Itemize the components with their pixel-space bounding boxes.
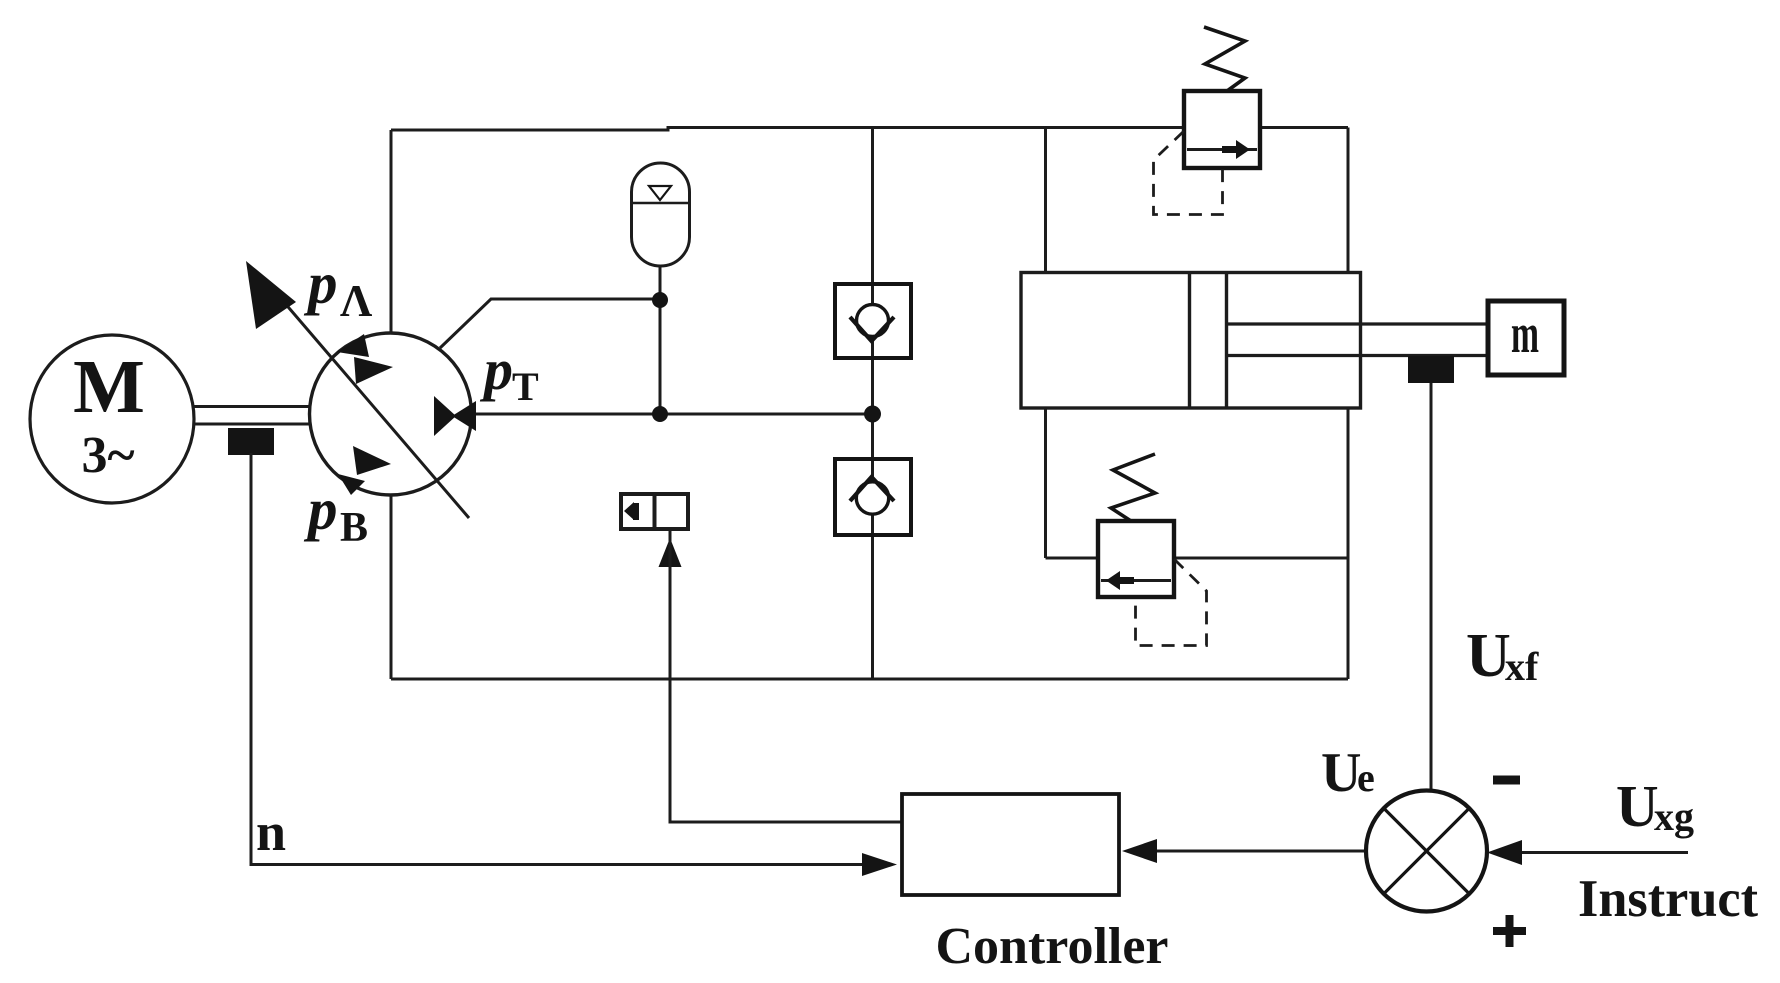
check valve V2 seat	[850, 477, 894, 501]
pump displacement arrow shaft	[283, 301, 469, 518]
svg-text:Instruct: Instruct	[1578, 870, 1758, 928]
node junction dot B	[652, 406, 668, 422]
controller box	[902, 794, 1119, 895]
check valve V2 ball	[856, 482, 888, 514]
svg-text:n: n	[256, 802, 286, 862]
mass block box	[1488, 301, 1564, 375]
arrowhead error into controller	[1122, 839, 1157, 863]
svg-text:M: M	[73, 345, 145, 429]
solenoid valve arrow	[624, 502, 634, 520]
relief valve RV1 flow line	[1187, 148, 1257, 151]
wire Uxf	[1430, 383, 1433, 792]
svg-text:B: B	[340, 505, 368, 551]
cylinder body	[1021, 273, 1361, 409]
solenoid valve body	[621, 494, 688, 529]
relief valve RV2 arrow	[1106, 571, 1120, 590]
label minus	[1493, 776, 1520, 785]
summing junction X	[1384, 808, 1470, 894]
speed sensor block	[228, 428, 274, 455]
check valve V1 ball	[857, 305, 889, 337]
accumulator shell	[632, 163, 690, 266]
wire error signal to controller	[1150, 850, 1366, 853]
svg-text:Λ: Λ	[340, 276, 372, 326]
wire accumulator drop	[659, 266, 662, 414]
svg-text:p: p	[303, 476, 338, 542]
relief valve RV1 box	[1184, 91, 1260, 168]
wire valve to controller	[670, 529, 902, 822]
check valve V1 seat	[850, 317, 894, 341]
relief valve RV1 arrow	[1236, 140, 1250, 159]
svg-text:p: p	[303, 250, 338, 316]
solenoid valve divider	[653, 494, 657, 529]
relief valve RV2 box	[1098, 521, 1174, 597]
control arrowhead into valve	[659, 538, 682, 567]
svg-text:U: U	[1321, 742, 1361, 804]
wire check valve column	[871, 128, 874, 680]
wire right vertical to bottom	[1347, 408, 1350, 679]
pump flow triangle B2	[338, 474, 365, 495]
check valve V2 box	[835, 459, 911, 535]
relief valve RV1 spring	[1204, 27, 1245, 91]
svg-text:m: m	[1511, 303, 1539, 365]
svg-text:e: e	[1357, 755, 1375, 800]
wire pump to accumulator branch	[440, 299, 660, 348]
svg-text:p: p	[479, 337, 513, 402]
node junction dot C	[864, 406, 881, 423]
pump pT port bowtie right	[452, 401, 476, 431]
motor M1 circle	[30, 335, 194, 503]
svg-text:3~: 3~	[81, 427, 134, 484]
relief valve RV2 pilot dashed	[1136, 559, 1207, 646]
wire left vertical pump bottom port	[390, 495, 393, 679]
wire n feedback	[251, 453, 864, 865]
svg-text:xf: xf	[1505, 644, 1539, 689]
relief valve RV1 pilot dashed	[1154, 131, 1223, 215]
pump flow triangle T1	[337, 334, 369, 357]
pump flow triangle T2	[354, 357, 393, 384]
wire pT main line	[474, 413, 873, 416]
wire Uxg input	[1520, 851, 1688, 854]
wire cylinder left port	[1044, 128, 1047, 273]
relief valve RV2 flow line	[1101, 579, 1171, 582]
pump flow triangle B1	[353, 446, 391, 475]
svg-text:xg: xg	[1654, 794, 1694, 839]
wire relief RV2 line	[1046, 557, 1349, 560]
node junction dot A	[652, 292, 668, 308]
arrowhead n into controller	[862, 853, 897, 876]
accumulator gas line	[633, 202, 688, 204]
svg-text:Controller: Controller	[936, 918, 1169, 975]
wire cylinder bottom left vertical	[1044, 408, 1047, 558]
arrowhead Uxg into summing	[1487, 840, 1522, 865]
pump displacement arrowhead	[246, 261, 296, 329]
svg-text:T: T	[512, 364, 539, 409]
wire right top vertical (to cylinder top)	[1347, 128, 1350, 273]
pump P1 circle	[310, 333, 472, 495]
summing junction circle	[1366, 791, 1487, 912]
cylinder rod	[1227, 324, 1489, 356]
relief valve RV2 spring	[1111, 454, 1155, 521]
wire bottom boundary line	[391, 678, 1348, 681]
svg-text:U: U	[1616, 773, 1659, 839]
wire left vertical pump top port	[390, 130, 393, 333]
check valve V1 box	[835, 284, 911, 358]
accumulator gas triangle	[649, 186, 671, 200]
wire top boundary line	[391, 128, 1348, 131]
pump pT port bowtie left	[434, 396, 456, 436]
drive shaft	[194, 407, 310, 425]
cylinder piston	[1190, 273, 1227, 409]
position sensor block	[1408, 356, 1454, 383]
label plus	[1493, 927, 1526, 935]
